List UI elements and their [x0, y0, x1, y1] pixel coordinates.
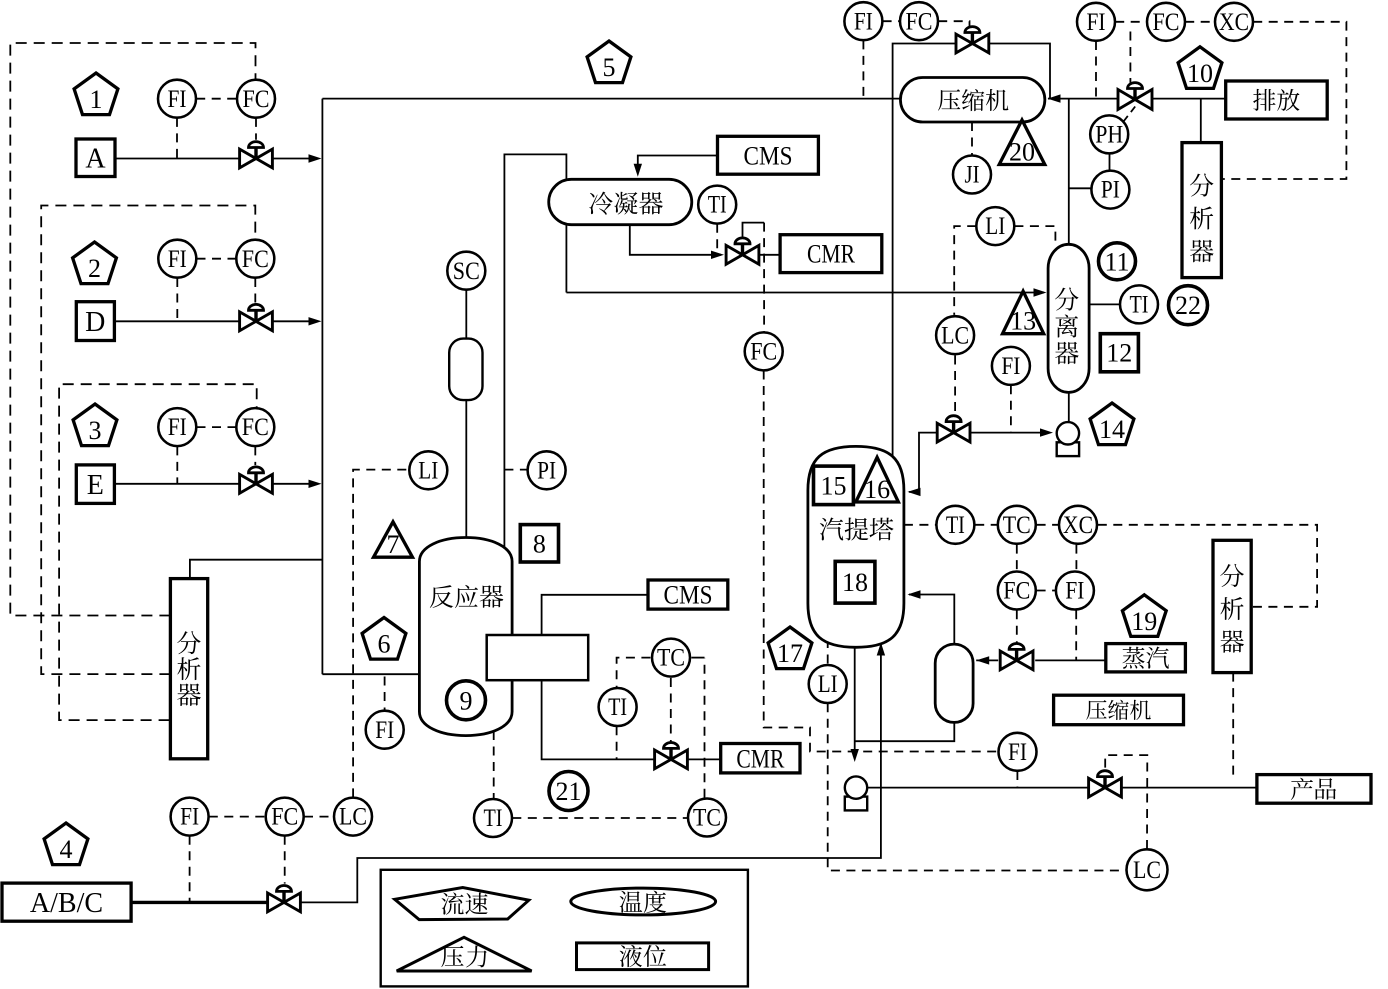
signal dashed FC st to valve — [1016, 610, 1018, 643]
signal dashed analyzer to FC3 border — [59, 384, 257, 720]
pump P1 separator — [1057, 422, 1079, 456]
instrument JI — [953, 156, 991, 194]
svg-text:A: A — [85, 144, 106, 175]
box feed E — [76, 465, 114, 504]
box feed ABC — [2, 883, 131, 921]
signal dashed TI21TC chain — [512, 817, 687, 819]
stream tag pentagon 3 — [73, 404, 117, 446]
tag square 8 — [520, 525, 558, 562]
signal dashed LC4 riser — [353, 470, 409, 798]
svg-text:8: 8 — [533, 529, 546, 558]
flow arrow D into header — [309, 317, 322, 325]
node circle 22 — [1169, 286, 1208, 325]
signal dashed sep LC to valve — [954, 356, 956, 416]
instrument LI-r — [409, 451, 447, 489]
signal dashed FC3 to valve — [254, 446, 256, 465]
svg-text:1: 1 — [90, 85, 103, 114]
flow arrow into stripper bottom — [877, 643, 885, 656]
signal dashed XC to FI st — [1075, 545, 1077, 571]
svg-text:TI: TI — [608, 694, 627, 721]
signal dashed FC4 to valve — [284, 836, 286, 884]
signal dashed purge valve signal — [1129, 32, 1131, 84]
instrument TI-cond — [698, 186, 736, 224]
wire feed E line — [114, 483, 240, 485]
control valve product — [1089, 771, 1122, 797]
wire reactor effluent riser — [504, 154, 566, 548]
instrument LC-prod — [1127, 849, 1168, 890]
signal dashed FI3 tap — [176, 446, 178, 483]
svg-text:FC: FC — [243, 86, 270, 113]
instrument FI-4 — [171, 798, 209, 836]
instrument LI-sep — [976, 207, 1014, 245]
instrument SC — [447, 252, 485, 290]
wire purge line — [1050, 98, 1118, 100]
wire purge valve to vent — [1152, 98, 1226, 100]
svg-text:PH: PH — [1095, 122, 1123, 149]
svg-text:4: 4 — [60, 835, 73, 864]
svg-text:SC: SC — [453, 258, 480, 285]
signal dashed reactor TI tap — [493, 731, 495, 799]
instrument XC-p — [1215, 3, 1253, 41]
box CMR1 — [780, 235, 882, 273]
instrument LC-sep — [936, 316, 974, 354]
svg-text:FI: FI — [375, 717, 394, 744]
tag triangle 20 — [999, 120, 1045, 167]
control valve separator liquid — [937, 416, 970, 442]
signal dashed purge FI-FC link — [1115, 21, 1147, 23]
box analyzer right — [1182, 143, 1221, 278]
svg-text:TI: TI — [708, 192, 727, 219]
pump P2 stripper — [845, 776, 867, 810]
wire feed A after valve — [273, 158, 319, 160]
wire PI connector — [1069, 187, 1091, 189]
wire stripper overhead line — [893, 44, 956, 464]
svg-text:JI: JI — [965, 162, 980, 189]
signal dashed JI tap — [971, 122, 973, 155]
signal dashed TIrc to cw line — [616, 726, 618, 759]
instrument LI-st — [809, 665, 847, 703]
flow arrow into separator — [1034, 288, 1047, 296]
wire cw2 valve to CMR — [688, 758, 721, 760]
instrument FC-p — [1147, 3, 1185, 41]
wire reboiler return line — [909, 595, 954, 645]
box product 产品 — [1257, 775, 1371, 804]
wire feed D after valve — [273, 320, 319, 322]
signal dashed purge FI tap — [1095, 41, 1097, 99]
svg-text:17: 17 — [777, 639, 803, 668]
flow arrow into cw valve — [711, 251, 724, 259]
svg-text:TI: TI — [484, 805, 503, 832]
vessel reboiler — [935, 644, 973, 722]
svg-text:FC: FC — [1153, 9, 1180, 36]
svg-text:14: 14 — [1099, 415, 1125, 444]
signal dashed comp FI tap — [862, 40, 864, 98]
svg-text:21: 21 — [556, 777, 582, 806]
svg-text:13: 13 — [1010, 307, 1036, 336]
wire compressor suction line — [1048, 98, 1050, 100]
svg-text:TI: TI — [1130, 292, 1149, 319]
wire analyzer sample line — [190, 560, 323, 579]
wire condenser cw outlet — [630, 225, 721, 255]
signal dashed XC st loop — [1098, 525, 1317, 607]
wire feed D line — [114, 320, 240, 322]
tag triangle 13 — [1003, 291, 1044, 336]
wire product line — [868, 787, 1089, 789]
svg-text:6: 6 — [378, 630, 391, 659]
signal dashed sep LI right — [1014, 226, 1055, 244]
instrument FI-3 — [158, 408, 196, 446]
wire feed E after valve — [273, 483, 319, 485]
node circle 9 — [447, 681, 486, 720]
box compressor label — [1054, 695, 1184, 725]
stream tag pentagon 19 — [1122, 595, 1166, 637]
svg-text:16: 16 — [864, 475, 890, 504]
instrument LC-4 — [334, 798, 372, 836]
svg-text:FC: FC — [271, 804, 298, 831]
wire condenser to separator line — [566, 292, 1044, 294]
svg-text:LI: LI — [985, 213, 1005, 240]
svg-text:18: 18 — [842, 568, 868, 597]
signal dashed cond TI tap — [716, 224, 718, 255]
wire C feed line thick — [131, 901, 268, 904]
signal dashed TC to FC st — [1016, 545, 1018, 571]
svg-text:FI: FI — [1065, 578, 1084, 605]
tag triangle 7 — [374, 522, 413, 559]
flow arrow into pump2 — [851, 749, 859, 762]
box CMS1 — [718, 136, 819, 174]
instrument FC-cw — [745, 332, 783, 370]
legend flow pentagon — [395, 888, 529, 920]
vessel condenser — [549, 179, 692, 224]
flow arrow into stripper top — [908, 488, 921, 496]
instrument FI-p — [1077, 3, 1115, 41]
svg-text:FI: FI — [854, 8, 873, 35]
signal dashed analyzer BR tap — [1232, 673, 1234, 779]
svg-text:FI: FI — [168, 86, 187, 113]
instrument FC-4 — [266, 798, 304, 836]
signal dashed FI2 tap — [176, 278, 178, 321]
box analyzer left — [170, 579, 207, 759]
signal dashed FI1-FC1 link — [196, 98, 237, 100]
box feed D — [76, 302, 114, 341]
signal dashed analyzer to FC1 border — [10, 43, 255, 616]
signal dashed FI product tap — [1016, 771, 1018, 787]
svg-text:9: 9 — [460, 686, 473, 715]
box CMS2 — [648, 580, 728, 609]
stream tag pentagon 5 — [587, 41, 631, 83]
svg-text:2: 2 — [88, 254, 101, 283]
svg-text:20: 20 — [1009, 138, 1035, 167]
instrument TI-st — [936, 506, 974, 544]
signal dashed stripper TI tap — [904, 524, 936, 526]
svg-text:PI: PI — [537, 457, 556, 484]
svg-text:PI: PI — [1101, 177, 1120, 204]
signal dashed PI reactor tap — [504, 469, 527, 471]
signal dashed FC4-LC4 link — [304, 816, 334, 818]
svg-text:CMS: CMS — [744, 141, 793, 170]
wire cw valve to CMR — [759, 254, 780, 256]
svg-text:E: E — [87, 470, 104, 501]
svg-text:LI: LI — [418, 457, 438, 484]
svg-text:FI: FI — [1087, 9, 1106, 36]
wire HX to CMR line — [542, 680, 655, 759]
svg-text:5: 5 — [603, 53, 616, 82]
control valve purge — [1118, 83, 1152, 110]
stream tag pentagon 17 — [768, 627, 812, 669]
vessel stripper — [808, 446, 904, 647]
svg-text:TC: TC — [693, 805, 721, 832]
signal dashed FI1 tap — [176, 118, 178, 159]
svg-text:7: 7 — [387, 530, 400, 559]
control valve compressor bypass — [956, 27, 989, 53]
legend pressure triangle — [397, 937, 532, 971]
svg-text:TI: TI — [946, 512, 965, 539]
signal dashed comp FC to valve — [938, 21, 969, 27]
wire agitator shaft upper — [465, 290, 467, 339]
wire C feed after valve — [301, 645, 881, 902]
instrument TC-rc — [652, 639, 690, 677]
instrument TI-b — [474, 799, 512, 837]
wire steam line — [1035, 659, 1106, 661]
wire bypass right leg — [989, 44, 1050, 99]
wire cw valve stem ext — [743, 223, 765, 238]
instrument FC-1 — [237, 80, 275, 118]
signal dashed FI reactor tap — [384, 677, 386, 711]
svg-text:TC: TC — [1003, 512, 1031, 539]
stream tag pentagon 6 — [362, 618, 406, 660]
instrument FI-c — [844, 2, 882, 40]
svg-text:FI: FI — [168, 414, 187, 441]
wire vent analyzer drop — [1200, 99, 1202, 143]
svg-text:10: 10 — [1187, 59, 1213, 88]
svg-text:19: 19 — [1131, 607, 1157, 636]
svg-text:LC: LC — [1133, 857, 1161, 884]
stream tag pentagon 14 — [1090, 403, 1134, 445]
flow arrow into pump1 — [1040, 428, 1053, 436]
svg-text:11: 11 — [1104, 247, 1129, 276]
box analyzer bottom right — [1213, 540, 1251, 672]
signal dashed TC-XC st link — [1037, 524, 1059, 526]
instrument PI-r — [528, 451, 566, 489]
instrument TI-rc — [599, 688, 637, 726]
heat exchanger coil — [487, 635, 589, 680]
instrument PH — [1090, 115, 1128, 153]
signal dashed FC2 to valve — [254, 278, 256, 303]
tag square 12 — [1100, 334, 1138, 372]
vessel reactor — [419, 538, 512, 736]
control valve D feed — [240, 304, 273, 330]
control valve reactor CW — [655, 743, 688, 769]
legend box — [381, 870, 748, 987]
stream tag pentagon 2 — [73, 242, 117, 284]
svg-text:LI: LI — [818, 671, 838, 698]
legend level rectangle — [577, 943, 709, 970]
svg-text:FC: FC — [242, 414, 269, 441]
flow arrow A into header — [309, 154, 322, 162]
instrument TI-sep — [1120, 285, 1158, 323]
signal dashed TIrc branch — [617, 658, 651, 688]
svg-text:LC: LC — [941, 322, 969, 349]
vessel separator — [1048, 244, 1089, 392]
flow arrow into compressor — [1048, 94, 1061, 102]
instrument TC-st — [998, 506, 1036, 544]
signal dashed purge FC-XC link — [1185, 21, 1215, 23]
instrument FC-3 — [236, 408, 274, 446]
svg-text:FI: FI — [168, 246, 187, 273]
instrument FC-st — [998, 572, 1036, 610]
svg-text:15: 15 — [821, 471, 847, 500]
wire reboiler circulation — [855, 722, 955, 741]
box feed A — [76, 139, 115, 177]
stream tag pentagon 1 — [74, 73, 118, 115]
instrument FI-r — [366, 711, 404, 749]
svg-text:CMR: CMR — [736, 744, 785, 773]
wire PH PI link — [1109, 154, 1111, 170]
wire feed A line — [115, 158, 240, 160]
signal dashed FI4-FC4 link — [209, 816, 266, 818]
signal dashed TCb riser — [704, 658, 706, 798]
svg-text:FI: FI — [1008, 739, 1027, 766]
signal dashed LI to LC product — [828, 703, 1127, 870]
vessel compressor — [900, 78, 1044, 123]
signal dashed comp FI-FC link — [883, 20, 900, 22]
tag square 15 — [814, 466, 854, 505]
signal dashed FC1 to valve — [255, 118, 257, 140]
wire TC connector stub — [691, 657, 704, 659]
node circle 11 — [1099, 243, 1136, 280]
box steam 蒸汽 — [1106, 644, 1186, 672]
svg-text:TC: TC — [657, 645, 685, 672]
flow arrow E into header — [309, 480, 322, 488]
wire agitator shaft lower — [465, 400, 467, 539]
svg-text:FI: FI — [1001, 353, 1020, 380]
wire sep valve to pump line — [970, 432, 1049, 434]
instrument FC-c — [900, 2, 938, 40]
svg-text:12: 12 — [1106, 339, 1132, 368]
signal dashed FC to FI product — [764, 371, 999, 752]
signal dashed FI3-FC3 link — [197, 426, 237, 428]
wire separator TI connector — [1089, 303, 1120, 305]
signal dashed FI4 tap — [189, 836, 191, 903]
instrument FI-sep — [992, 347, 1030, 385]
wire HX to CMS line — [542, 595, 648, 635]
signal dashed LC to product valve — [1105, 755, 1147, 849]
instrument FI-st — [1056, 572, 1094, 610]
instrument FI-2 — [158, 240, 196, 278]
svg-text:22: 22 — [1175, 291, 1201, 320]
svg-text:FC: FC — [906, 8, 933, 35]
svg-text:FC: FC — [242, 246, 269, 273]
svg-text:A/B/C: A/B/C — [30, 888, 103, 919]
instrument FI-prod — [999, 733, 1037, 771]
flow arrow into reboiler — [976, 656, 989, 664]
wire separator bottoms — [1068, 392, 1070, 422]
wire CMS to condenser line — [638, 156, 718, 174]
signal dashed sep FI tap — [1010, 385, 1012, 432]
node circle 21 — [549, 772, 588, 811]
agitator housing — [449, 339, 482, 401]
wire feed header vertical — [321, 99, 323, 675]
wire recycle top line — [322, 98, 900, 100]
control valve condenser CW — [726, 238, 759, 264]
signal dashed sep LI left — [954, 226, 976, 315]
signal dashed FI st tap — [1075, 610, 1077, 660]
signal dashed cw FC riser — [763, 223, 765, 333]
svg-text:XC: XC — [1219, 9, 1249, 36]
flow arrow into condenser top — [634, 164, 642, 177]
svg-text:D: D — [85, 307, 105, 338]
box vent 排放 — [1226, 81, 1328, 119]
tag square 18 — [835, 561, 875, 603]
control valve steam — [1000, 644, 1033, 670]
flow arrow into stripper mid — [908, 590, 921, 598]
wire reactor feed line — [322, 673, 419, 675]
svg-text:3: 3 — [89, 416, 102, 445]
signal dashed FI2-FC2 link — [197, 258, 237, 260]
wire product valve to box — [1122, 787, 1257, 789]
signal dashed TCrc to valve — [670, 678, 672, 742]
instrument TC-b — [688, 799, 726, 837]
signal dashed purge XC loop — [1221, 22, 1346, 179]
signal dashed analyzer to FC2 border — [41, 206, 255, 675]
stream tag pentagon 4 — [44, 823, 88, 865]
legend temperature ellipse — [571, 888, 716, 915]
signal dashed FC-FI st link — [1037, 590, 1056, 592]
svg-text:LC: LC — [339, 804, 367, 831]
instrument FC-2 — [236, 240, 274, 278]
svg-text:CMS: CMS — [664, 581, 713, 610]
wire steam valve to reboiler — [976, 659, 998, 661]
wire stripper bottoms down — [854, 645, 856, 758]
signal dashed stripper LI tap — [827, 639, 829, 665]
svg-text:XC: XC — [1063, 512, 1093, 539]
control valve C feed — [268, 886, 301, 912]
instrument PI-sep — [1091, 171, 1129, 209]
tag triangle 16 — [856, 457, 899, 504]
wire sep valve to stripper — [909, 433, 938, 492]
wire separator riser — [1068, 99, 1070, 245]
stream tag pentagon 10 — [1178, 47, 1222, 89]
control valve E feed — [240, 467, 273, 493]
svg-text:CMR: CMR — [807, 240, 856, 269]
signal dashed PH diag — [1124, 104, 1138, 122]
svg-text:FC: FC — [750, 339, 777, 366]
svg-text:FC: FC — [1003, 578, 1030, 605]
instrument XC-st — [1059, 506, 1097, 544]
control valve A feed — [240, 142, 273, 168]
signal dashed TI-TC st link — [975, 524, 997, 526]
box CMR2 — [721, 744, 800, 773]
instrument FI-1 — [158, 80, 196, 118]
svg-text:FI: FI — [180, 804, 199, 831]
